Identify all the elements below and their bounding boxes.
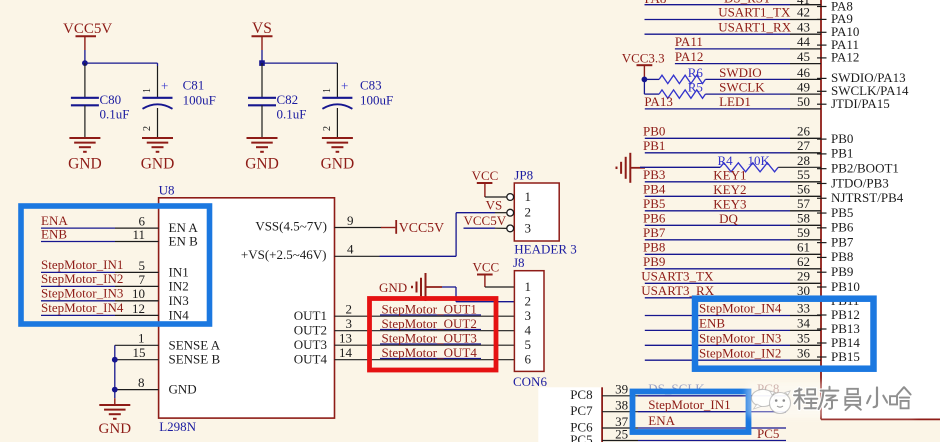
svg-text:2: 2: [525, 205, 532, 220]
svg-text:StepMotor_OUT1: StepMotor_OUT1: [382, 301, 477, 316]
svg-text:7: 7: [139, 272, 146, 287]
resistor R6: [644, 65, 705, 84]
svg-text:VCC5V: VCC5V: [399, 220, 444, 235]
svg-text:59: 59: [797, 225, 810, 240]
svg-text:VCC5V: VCC5V: [464, 213, 507, 228]
pin stub PB12: [817, 314, 827, 316]
svg-text:PA13: PA13: [644, 94, 672, 109]
wire net PB0 row 26: [645, 137, 790, 139]
node junction VCC5V: [82, 60, 88, 66]
svg-text:EN B: EN B: [169, 234, 199, 249]
svg-text:C80: C80: [100, 92, 122, 107]
wire net row 57: [645, 210, 790, 212]
svg-text:J8: J8: [513, 255, 525, 270]
pin stub PB14: [817, 342, 827, 344]
pin stub PB5: [817, 212, 827, 214]
pin stub PB13: [817, 328, 827, 330]
wire net row 55: [645, 181, 790, 183]
svg-text:4: 4: [347, 242, 354, 257]
svg-text:PB5: PB5: [831, 205, 853, 220]
wire net row 29: [645, 282, 790, 284]
wire net PA11 row 44: [675, 48, 790, 50]
svg-text:45: 45: [797, 49, 810, 64]
svg-text:PC8: PC8: [570, 387, 592, 402]
annotation blue box StepMotor_IN1 ENA: [633, 392, 749, 433]
resistor R5: [644, 80, 705, 99]
svg-text:U8: U8: [159, 183, 175, 198]
svg-text:R4: R4: [718, 153, 734, 168]
svg-text:2: 2: [322, 126, 333, 131]
svg-text:USART3_TX: USART3_TX: [641, 269, 714, 284]
svg-text:PC5: PC5: [570, 432, 592, 442]
svg-text:36: 36: [797, 345, 811, 360]
svg-text:R5: R5: [688, 80, 703, 95]
pin circle JP8 pin 3: [507, 225, 514, 232]
svg-text:2: 2: [142, 126, 153, 131]
svg-text:46: 46: [797, 65, 811, 80]
power flag VCC above J8: [473, 260, 500, 288]
svg-text:USART1_RX: USART1_RX: [718, 19, 792, 34]
annotation red box StepMotor outputs: [370, 299, 497, 371]
svg-text:28: 28: [797, 153, 810, 168]
svg-text:LED1: LED1: [719, 94, 751, 109]
power flag VCC5V at pin 9: [396, 220, 444, 235]
svg-text:PB13: PB13: [831, 321, 860, 336]
pin stub PB9: [817, 271, 827, 273]
wire net ENB to U8 pin 11: [41, 241, 115, 243]
wire C82 to GND: [261, 105, 263, 138]
svg-text:GND: GND: [68, 156, 102, 173]
svg-text:PB5: PB5: [643, 196, 665, 211]
pin stub PB2/BOOT1: [817, 168, 827, 170]
wire net row 58: [645, 224, 790, 226]
svg-text:USART1_TX: USART1_TX: [718, 5, 791, 20]
wire net row 59: [645, 239, 790, 241]
svg-text:56: 56: [797, 182, 811, 197]
svg-text:PB6: PB6: [831, 220, 854, 235]
op-amp U8 body L298N: [159, 198, 335, 418]
watermark logo: [752, 390, 791, 414]
svg-text:StepMotor_IN2: StepMotor_IN2: [41, 271, 123, 286]
svg-text:12: 12: [132, 301, 145, 316]
wire net row 62: [645, 268, 790, 270]
wire net row 30: [645, 297, 790, 299]
svg-text:StepMotor_OUT3: StepMotor_OUT3: [382, 330, 477, 345]
svg-text:43: 43: [797, 19, 810, 34]
svg-text:44: 44: [797, 34, 811, 49]
ground GND under C83: [321, 138, 355, 173]
svg-text:PB4: PB4: [643, 182, 666, 197]
wire pin 4 to JP8 pin 2: [335, 213, 508, 257]
svg-text:3: 3: [346, 316, 353, 331]
svg-text:38: 38: [615, 398, 628, 413]
svg-text:55: 55: [797, 167, 810, 182]
wire net StepMotor_IN2 to U8 pin 7: [41, 285, 115, 287]
svg-text:1: 1: [525, 189, 532, 204]
svg-text:50: 50: [797, 94, 810, 109]
svg-text:+: +: [341, 78, 348, 93]
wire junction to C83: [262, 63, 337, 98]
pin stub PB10: [817, 286, 827, 288]
svg-text:3: 3: [525, 220, 532, 235]
svg-text:StepMotor_IN4: StepMotor_IN4: [41, 300, 124, 315]
svg-text:GND: GND: [169, 382, 197, 397]
wire C81 to GND: [157, 108, 159, 138]
svg-text:IN1: IN1: [169, 264, 189, 279]
svg-text:IN4: IN4: [169, 307, 190, 322]
svg-text:SENSE A: SENSE A: [169, 337, 221, 352]
svg-text:VS: VS: [486, 198, 503, 213]
svg-text:PB2/BOOT1: PB2/BOOT1: [831, 160, 899, 175]
svg-text:C82: C82: [277, 92, 299, 107]
wire VCC to JP8 pin 1: [485, 196, 507, 198]
svg-text:PB0: PB0: [831, 131, 853, 146]
wire net PA12 row 45: [675, 63, 790, 65]
wire net StepMotor_OUT3: [335, 344, 515, 345]
svg-text:2: 2: [346, 302, 353, 317]
wire R4 to pin 28: [778, 166, 821, 168]
svg-text:StepMotor_IN1: StepMotor_IN1: [648, 397, 730, 412]
wire VCC to J8 pin 1: [485, 286, 515, 288]
wire junction to C82: [261, 63, 263, 98]
annotation blue box PB11-PB15: [695, 299, 874, 369]
svg-text:8: 8: [138, 375, 145, 390]
wire net StepMotor_IN3 to U8 pin 10: [41, 300, 115, 302]
svg-text:27: 27: [797, 138, 811, 153]
pin stub PB6: [817, 227, 827, 229]
power flag VCC5V (top-left): [63, 21, 112, 50]
svg-text:KEY1: KEY1: [713, 168, 746, 183]
svg-text:SENSE B: SENSE B: [169, 352, 221, 367]
wire net LED1 row 50: [645, 108, 790, 110]
wire pin 9 to VCC5V bar: [335, 227, 396, 229]
svg-text:NJTRST/PB4: NJTRST/PB4: [831, 190, 904, 205]
svg-text:VCC: VCC: [472, 168, 499, 183]
svg-text:VCC: VCC: [473, 260, 500, 275]
svg-text:PB8: PB8: [643, 240, 665, 255]
svg-text:3: 3: [525, 308, 532, 323]
svg-text:0.1uF: 0.1uF: [277, 107, 307, 122]
wire net row 36: [645, 359, 790, 361]
svg-text:34: 34: [797, 316, 811, 331]
svg-text:1: 1: [138, 331, 145, 346]
svg-text:PC5: PC5: [757, 426, 779, 441]
pin stub PA8: [817, 6, 827, 8]
wire C83 to GND: [336, 108, 338, 138]
annotation blue box L298N inputs: [21, 206, 210, 324]
wire row 39 bottom: [602, 395, 786, 397]
svg-text:ENA: ENA: [648, 413, 675, 428]
svg-text:9: 9: [347, 213, 354, 228]
svg-text:10K: 10K: [748, 153, 771, 168]
svg-text:11: 11: [132, 227, 145, 242]
pin stub PB11: [817, 300, 827, 302]
svg-text:R6: R6: [688, 65, 704, 80]
MCU body right: [821, 0, 940, 419]
svg-text:ENB: ENB: [41, 226, 67, 241]
node junction SENSE B: [112, 357, 118, 363]
wire net StepMotor_OUT1: [335, 315, 515, 316]
svg-text:PB14: PB14: [831, 335, 860, 350]
svg-text:L298N: L298N: [159, 419, 196, 434]
svg-text:0.1uF: 0.1uF: [100, 107, 130, 122]
pin circle JP8 pin 1: [507, 194, 514, 201]
wire GND pin: [115, 389, 159, 391]
ground GND under C80: [68, 138, 102, 173]
svg-text:IN2: IN2: [169, 278, 189, 293]
wire net StepMotor_IN4 to U8 pin 12: [41, 314, 115, 316]
ground GND under C81: [141, 138, 175, 173]
ground GND under C82: [245, 138, 279, 173]
pin stub PB1: [817, 153, 827, 155]
svg-text:JTDI/PA15: JTDI/PA15: [831, 96, 890, 111]
wire net row 34: [645, 329, 790, 331]
wire net StepMotor_OUT2: [335, 329, 515, 330]
wire net StepMotor_OUT4: [335, 358, 515, 359]
svg-text:OUT1: OUT1: [294, 308, 327, 323]
svg-text:PA12: PA12: [675, 49, 703, 64]
wire VS vertical: [261, 50, 263, 63]
svg-text:C81: C81: [183, 78, 205, 93]
svg-text:2: 2: [525, 294, 532, 309]
svg-text:GND: GND: [321, 156, 355, 173]
pin stub PA9: [817, 18, 827, 20]
svg-text:+: +: [161, 78, 168, 93]
pin stub SWCLK/PA14: [817, 90, 827, 92]
svg-text:PA8: PA8: [645, 0, 667, 6]
pin stub PB15: [817, 356, 827, 358]
svg-text:JTDO/PB3: JTDO/PB3: [831, 175, 889, 190]
pin stub PA12: [817, 57, 827, 59]
wire net ENA to U8 pin 6: [41, 227, 115, 229]
wire row 38 bottom: [602, 411, 786, 413]
pin stub PA10: [817, 31, 827, 33]
svg-text:VSS(4.5~7V): VSS(4.5~7V): [255, 218, 327, 233]
svg-text:SWDIO: SWDIO: [719, 65, 762, 80]
svg-text:ENB: ENB: [699, 316, 725, 331]
wire sense junction vertical: [114, 345, 116, 398]
svg-text:PB1: PB1: [643, 138, 665, 153]
svg-text:29: 29: [797, 269, 810, 284]
svg-text:62: 62: [797, 254, 810, 269]
svg-text:KEY2: KEY2: [713, 182, 746, 197]
svg-text:StepMotor_IN1: StepMotor_IN1: [41, 257, 123, 272]
svg-text:OUT2: OUT2: [294, 323, 327, 338]
svg-text:10: 10: [132, 286, 145, 301]
watermark text: [746, 382, 918, 418]
svg-text:GND: GND: [141, 156, 175, 173]
pin stub PB0: [817, 138, 827, 140]
wire GND to J8 pin 2: [442, 287, 514, 302]
svg-text:DQ: DQ: [719, 211, 738, 226]
svg-text:39: 39: [615, 382, 628, 397]
svg-text:42: 42: [797, 5, 810, 20]
pin stub PB8: [817, 256, 827, 258]
svg-text:PA11: PA11: [675, 34, 703, 49]
ground GND symbol rotated: [412, 273, 442, 301]
wire row 37 bottom: [602, 427, 786, 429]
svg-text:PA12: PA12: [831, 50, 859, 65]
svg-text:GND: GND: [99, 421, 132, 437]
svg-text:PB10: PB10: [831, 279, 860, 294]
svg-text:PB7: PB7: [831, 234, 854, 249]
connector JP8 body: [514, 183, 559, 241]
svg-text:JP8: JP8: [514, 168, 533, 183]
capacitor C83 polarized: [322, 78, 393, 132]
svg-text:PB3: PB3: [643, 167, 665, 182]
wire to ground: [114, 398, 116, 405]
svg-text:PB8: PB8: [831, 249, 853, 264]
ground GND under U8: [99, 405, 132, 437]
wire C80 to GND: [84, 105, 86, 138]
svg-text:5: 5: [139, 258, 146, 273]
pin stub NJTRST/PB4: [817, 197, 827, 199]
svg-text:VCC3.3: VCC3.3: [622, 51, 665, 66]
svg-text:GND: GND: [245, 156, 279, 173]
pin stub PA11: [817, 44, 827, 46]
svg-text:1: 1: [322, 88, 333, 93]
wire net row 33: [645, 315, 790, 317]
svg-text:35: 35: [797, 331, 810, 346]
wire net row 56: [645, 195, 790, 197]
MCU body bottom edge: [821, 418, 940, 420]
svg-text:33: 33: [797, 301, 810, 316]
svg-text:1: 1: [142, 88, 153, 93]
svg-text:+VS(+2.5~46V): +VS(+2.5~46V): [241, 247, 327, 262]
svg-text:13: 13: [339, 331, 352, 346]
svg-text:CON6: CON6: [513, 374, 547, 389]
ground GND at row 28: [617, 153, 646, 183]
wire net USART1_RX row 43: [645, 33, 791, 35]
svg-text:57: 57: [797, 196, 811, 211]
svg-text:VS: VS: [252, 20, 272, 37]
wire net row 61: [645, 253, 790, 255]
wire net PB1 row 27: [645, 152, 790, 154]
svg-text:StepMotor_IN3: StepMotor_IN3: [41, 286, 123, 301]
svg-text:100uF: 100uF: [183, 93, 216, 108]
wire net USART1_TX row 42: [645, 19, 791, 21]
power flag VCC above JP8: [472, 168, 499, 197]
svg-text:SWCLK: SWCLK: [719, 80, 765, 95]
svg-text:25: 25: [615, 426, 628, 441]
power flag VS: [252, 20, 273, 50]
wire net row 35: [645, 344, 790, 346]
wire junction down to R5: [643, 79, 645, 94]
wire junction to C81: [85, 63, 158, 98]
svg-text:58: 58: [797, 211, 810, 226]
svg-text:PB6: PB6: [643, 211, 666, 226]
svg-text:PB7: PB7: [643, 225, 666, 240]
pin stub JTDO/PB3: [817, 182, 827, 184]
svg-text:26: 26: [797, 124, 811, 139]
svg-text:GND: GND: [379, 280, 407, 295]
svg-text:PB12: PB12: [831, 307, 860, 322]
svg-text:61: 61: [797, 240, 810, 255]
svg-text:KEY3: KEY3: [713, 197, 746, 212]
svg-text:49: 49: [797, 80, 810, 95]
svg-text:IN3: IN3: [169, 293, 189, 308]
svg-text:PB1: PB1: [831, 146, 853, 161]
wire net PA8 row 41 partial: [645, 0, 822, 7]
svg-text:OUT4: OUT4: [294, 352, 328, 367]
svg-text:PC7: PC7: [570, 403, 593, 418]
node junction GND: [112, 387, 118, 393]
svg-text:OUT3: OUT3: [294, 337, 327, 352]
svg-text:StepMotor_OUT2: StepMotor_OUT2: [382, 316, 477, 331]
svg-text:14: 14: [339, 345, 353, 360]
svg-text:StepMotor_IN4: StepMotor_IN4: [699, 301, 782, 316]
MCU bottom-left body: [538, 387, 602, 442]
wire R5 to pin 49: [705, 93, 821, 95]
wire VCC5V vertical: [84, 50, 86, 63]
resistor R4: [718, 153, 779, 172]
svg-text:StepMotor_IN2: StepMotor_IN2: [699, 345, 781, 360]
svg-text:C83: C83: [360, 78, 382, 93]
wire VCC5V stub to JP8 pin 3: [464, 227, 508, 229]
svg-text:StepMotor_IN3: StepMotor_IN3: [699, 331, 781, 346]
svg-text:VCC5V: VCC5V: [63, 21, 112, 37]
svg-text:100uF: 100uF: [360, 93, 393, 108]
wire junction to C80: [84, 63, 86, 98]
wire SENSE A: [115, 344, 159, 346]
wire R6 to pin 46: [705, 78, 821, 80]
svg-text:4: 4: [525, 323, 532, 338]
svg-text:PB0: PB0: [643, 124, 665, 139]
svg-text:6: 6: [525, 352, 532, 367]
svg-text:5: 5: [525, 337, 532, 352]
pin circle JP8 pin 2: [507, 209, 514, 216]
wire row 28 to R4: [640, 166, 720, 168]
wire SENSE B: [115, 359, 159, 361]
connector J8 body: [514, 271, 544, 372]
capacitor C82: [248, 92, 306, 122]
svg-text:PB9: PB9: [643, 254, 665, 269]
pin stub JTDI/PA15: [817, 103, 827, 105]
wire net StepMotor_IN1 to U8 pin 5: [41, 271, 115, 273]
svg-text:PB9: PB9: [831, 264, 853, 279]
pin stub SWDIO/PA13: [817, 77, 827, 79]
power flag VCC3.3: [622, 51, 665, 80]
svg-text:StepMotor_OUT4: StepMotor_OUT4: [382, 345, 478, 360]
svg-text:PB15: PB15: [831, 349, 860, 364]
svg-text:15: 15: [133, 345, 146, 360]
node junction VS: [259, 60, 265, 66]
capacitor C81 polarized: [142, 78, 216, 132]
capacitor C80: [71, 92, 130, 122]
node junction VCC3.3: [642, 77, 648, 83]
pin stub PB7: [817, 242, 827, 244]
svg-text:1: 1: [525, 279, 532, 294]
wire row 25 bottom: [602, 440, 786, 442]
